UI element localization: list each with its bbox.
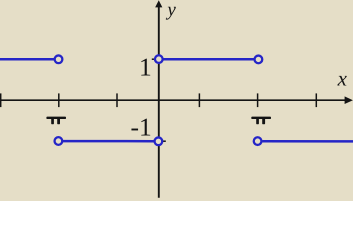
svg-text:x: x (337, 66, 348, 90)
svg-text:-1: -1 (131, 112, 152, 141)
svg-text:1: 1 (139, 53, 152, 82)
svg-text:y: y (165, 0, 176, 21)
